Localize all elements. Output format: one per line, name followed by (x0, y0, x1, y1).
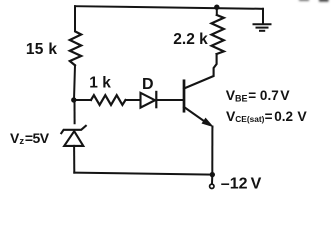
svg-text:2.2 k: 2.2 k (173, 31, 208, 48)
svg-text:VBE= 0.7V: VBE= 0.7V (226, 87, 291, 103)
svg-text:–12V: –12V (221, 175, 262, 192)
svg-text:Vz=5V: Vz=5V (10, 130, 50, 147)
svg-text:1 k: 1 k (89, 74, 111, 91)
svg-text:VCE(sat)=0.2V: VCE(sat)=0.2V (226, 108, 307, 124)
svg-text:D: D (142, 76, 154, 93)
svg-text:15 k: 15 k (26, 41, 57, 58)
